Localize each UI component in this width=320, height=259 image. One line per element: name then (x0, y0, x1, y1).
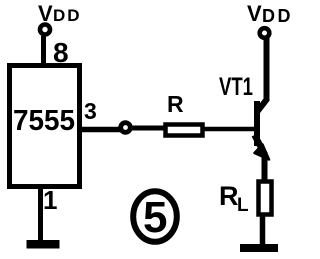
collector wire to VDD (264, 38, 270, 101)
emitter wire to RL (262, 152, 268, 183)
transistor VT1 base bar (254, 101, 260, 146)
transistor VT1 emitter stroke (255, 135, 265, 153)
transistor VT1 emitter arrow (255, 145, 270, 160)
pin 3 wire (81, 127, 120, 133)
svg-text:L: L (237, 195, 249, 216)
svg-text:DD: DD (262, 6, 293, 26)
wire RL to ground (260, 214, 266, 246)
IC U1 7555 body (10, 66, 80, 187)
svg-text:5: 5 (143, 193, 167, 242)
pin 1 wire (38, 186, 43, 244)
output node terminal (121, 123, 131, 133)
figure number circle (133, 191, 177, 242)
VDD terminal left (40, 25, 50, 35)
VDD terminal right (260, 28, 270, 38)
transistor VT1 collector stroke (257, 99, 267, 112)
svg-text:7555: 7555 (13, 105, 75, 137)
resistor R body (166, 125, 203, 136)
svg-text:VT1: VT1 (219, 73, 253, 101)
svg-text:3: 3 (84, 98, 97, 124)
svg-text:DD: DD (53, 6, 82, 25)
ground right (240, 244, 278, 252)
svg-text:1: 1 (43, 185, 57, 215)
pin 8 wire (41, 36, 46, 67)
resistor RL body (259, 182, 272, 215)
svg-text:R: R (219, 181, 239, 211)
svg-text:8: 8 (53, 37, 69, 68)
svg-text:R: R (167, 91, 184, 117)
ground left (27, 240, 60, 249)
wire node to R (131, 126, 165, 131)
svg-text:V: V (247, 1, 262, 26)
wire R to base (204, 127, 256, 132)
